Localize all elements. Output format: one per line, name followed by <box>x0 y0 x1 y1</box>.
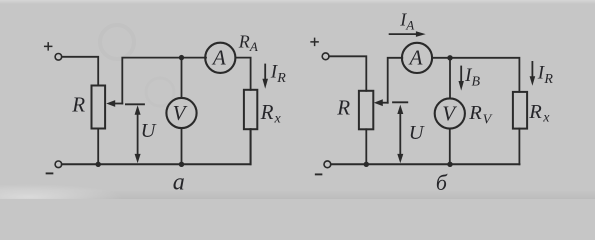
label IR (b) <box>537 63 554 88</box>
ghost bleed-through circle <box>100 25 134 59</box>
voltmeter branch wire lower (a) <box>181 128 183 164</box>
junction dot bottom-left (b) <box>364 162 369 167</box>
junction dot bottom-left (a) <box>96 162 101 167</box>
svg-text:a: a <box>173 170 185 196</box>
arrow IR (a) <box>264 65 266 80</box>
svg-text:x: x <box>542 110 550 125</box>
label IB (b) <box>464 65 480 90</box>
svg-text:R: R <box>260 100 274 124</box>
svg-text:B: B <box>472 75 481 90</box>
wire ammeter to Rx (a) <box>235 58 250 90</box>
wiper arrow (a) <box>114 103 123 105</box>
label Rx (a) <box>260 100 282 127</box>
wire below Rx (a) <box>250 129 252 164</box>
terminal − (b) <box>324 161 331 168</box>
rheostat R (a) <box>92 86 106 129</box>
bottom rail (b) <box>331 163 520 165</box>
svg-text:R: R <box>543 72 553 87</box>
U tick (a) <box>126 103 144 105</box>
svg-text:U: U <box>141 120 157 142</box>
plus sign (b) <box>311 38 318 45</box>
resistor Rx (b) <box>513 92 527 129</box>
minus sign (a) <box>47 172 53 174</box>
plus sign (a) <box>45 43 52 50</box>
voltmeter branch wire upper (b) <box>449 58 451 99</box>
svg-text:R: R <box>528 101 542 123</box>
wiper riser wire (a) <box>122 58 206 104</box>
svg-text:R: R <box>238 32 250 52</box>
bottom rail (a) <box>62 129 251 164</box>
ammeter A (a) <box>205 43 235 73</box>
svg-text:A: A <box>249 39 258 54</box>
svg-text:V: V <box>173 101 188 125</box>
svg-text:R: R <box>336 96 350 120</box>
voltmeter branch wire lower (b) <box>449 129 451 165</box>
voltmeter V (a) <box>166 98 196 128</box>
terminal − (a) <box>55 161 62 168</box>
minus sign (b) <box>316 173 322 175</box>
terminal + (a) <box>55 54 62 61</box>
wiper riser wire (b) <box>388 58 403 103</box>
label RA (a) <box>238 32 258 54</box>
wire below rheostat (a) <box>97 129 99 165</box>
svg-text:R: R <box>71 92 85 116</box>
U tick (b) <box>393 101 407 103</box>
label IA (b) <box>399 9 414 32</box>
label RV (b) <box>468 102 492 128</box>
resistor Rx (a) <box>244 90 257 129</box>
wire top-left (a) <box>62 57 98 86</box>
svg-text:A: A <box>211 46 226 70</box>
junction dot bottom-mid (a) <box>179 162 184 167</box>
wiper arrow (b) <box>381 102 388 104</box>
svg-text:R: R <box>468 102 482 124</box>
svg-text:A: A <box>405 18 414 33</box>
svg-text:A: A <box>408 46 423 70</box>
arrow IA (b) <box>390 33 417 35</box>
svg-text:R: R <box>276 71 286 86</box>
wire below rheostat (b) <box>365 129 367 164</box>
label IR (a) <box>270 62 287 87</box>
voltmeter branch wire upper (a) <box>181 58 183 98</box>
junction dot top (b) <box>447 55 452 60</box>
arrow IB (b) <box>460 67 462 82</box>
wire below Rx (b) <box>518 129 520 165</box>
U arrow (a) <box>137 113 139 157</box>
ammeter A (b) <box>402 43 432 73</box>
wire top-left (b) <box>329 56 366 91</box>
junction dot bottom-mid (b) <box>447 162 452 167</box>
svg-text:б: б <box>436 170 448 195</box>
terminal + (b) <box>322 53 329 60</box>
svg-text:V: V <box>483 112 493 127</box>
svg-text:V: V <box>442 101 457 125</box>
arrow IR (b) <box>531 62 533 77</box>
voltmeter V (b) <box>435 98 465 128</box>
rheostat R (b) <box>359 91 373 130</box>
wire ammeter to junction (b) <box>432 58 519 92</box>
U arrow (b) <box>399 112 401 157</box>
svg-text:U: U <box>409 122 425 144</box>
junction dot top (a) <box>179 55 184 60</box>
label Rx (b) <box>528 101 550 126</box>
svg-text:x: x <box>274 112 282 127</box>
